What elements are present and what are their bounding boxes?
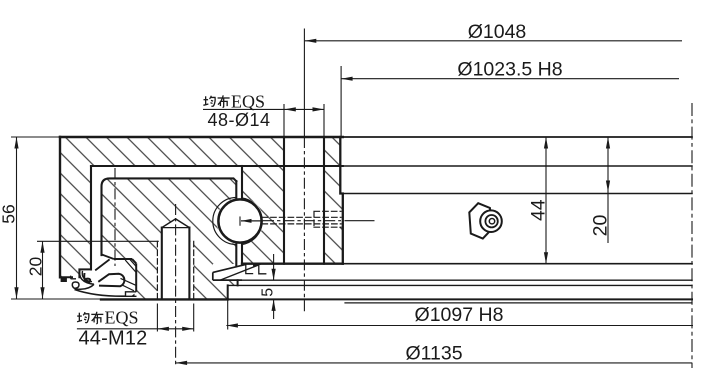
inner ring step edge upper [238,279,692,281]
outer seal: upper-left body edge [95,259,109,270]
M12 thread dashed lines [157,241,193,299]
dim 44-M12 [77,328,194,330]
dim 44 right [545,137,547,264]
svg-text:44-M12: 44-M12 [78,328,147,350]
svg-text:48-Ø14: 48-Ø14 [207,110,270,130]
outer seal: wall contact tick [71,276,76,279]
grease port void [324,211,343,227]
inner ring section (hatched) [101,178,237,299]
tapped hole M12 walls [162,228,190,300]
centerlines [115,29,692,369]
svg-text:Ø1135: Ø1135 [405,343,462,365]
M12 tapped hole void [157,219,193,300]
outer seal: lower lip hook [72,282,94,289]
inner wedge seal: black lip tip [253,263,261,267]
svg-text:Ø1023.5 H8: Ø1023.5 H8 [457,58,562,80]
dim D1097 H8 [226,325,693,327]
ball [218,199,261,242]
outer seal: bottom notch [126,292,137,297]
bottom thin edge right [345,302,692,304]
raceway groove arcs [242,198,262,245]
svg-text:56: 56 [0,204,19,223]
inner ring step edge lower [228,284,692,286]
outer seal: top right corner chamfer [132,259,136,263]
outer ring upper section (hatched) [60,137,343,277]
wall bottom face [60,269,91,277]
ball center tick [239,217,241,225]
dim line D1023.5 H8 [341,78,679,80]
outer seal: piece B chamfer above seal [102,254,114,259]
outer seal: lip fold arcs [80,269,94,284]
dim 56 [16,137,18,299]
wiper strip (black) [61,278,67,282]
svg-text:Ø1097 H8: Ø1097 H8 [415,304,504,326]
svg-text:EQS: EQS [231,91,265,111]
left outer edge [59,137,61,277]
structure outlines [60,137,692,303]
dim 5 [273,254,275,280]
outer seal: slanted lip finger [98,274,124,287]
ball raceway void [217,198,264,245]
svg-text:5: 5 [260,288,277,297]
svg-text:44: 44 [528,199,550,221]
seal groove centerline [114,168,116,266]
top edge [60,136,343,138]
outer seal: top edge [114,258,132,260]
outer seal: rubber hatch lines [121,259,137,291]
bore step edge [343,193,692,195]
dim 48-d14 line [203,108,324,110]
seal cavity void [101,255,137,300]
dim line D1048 [305,40,682,42]
svg-text:Ø1048: Ø1048 [468,21,527,43]
dim 20 left [42,241,44,298]
outer seal: bottom notch wedge [131,294,135,297]
section voids (white) [101,137,343,299]
grease passage arrow to ball [241,220,263,222]
wedge seal void [213,264,237,280]
bolt hole centerline [303,137,305,312]
svg-text:EQS: EQS [105,308,139,328]
svg-text:20: 20 [26,257,46,277]
channel bottom edge (inner ring top face) [102,178,237,255]
grease fitting circles [480,210,502,232]
dim D1135 [176,362,692,364]
bolt hole centerline upper solid (dim extension) [303,29,305,138]
outer seal: right edge [135,263,137,291]
bottom mounting face [101,298,228,300]
outer seal: lip fold curl [84,273,90,282]
outer seal: bottom edge [75,290,126,297]
inner wedge seal: long diagonal [221,265,260,280]
wall inner face [90,166,92,269]
right break centerline [691,103,693,368]
svg-text:20: 20 [590,215,612,237]
bore of outer ring (right edge of section) [340,137,343,264]
M12 hole centerline [175,204,177,365]
dim 20 right [607,137,609,243]
M12 cone bottom [162,227,190,229]
bolt hole 48-d14 edges [284,137,324,264]
inner wedge seal: step under tip [246,264,253,273]
inner wedge seal: left and bottom [213,272,242,280]
inner ring right face [235,181,237,197]
seals [71,254,267,296]
inner wedge seal: top diagonal [213,264,246,272]
inner wedge seal: right step [259,266,267,274]
channel right edge / outer ring inner face [241,166,243,198]
grease fitting hex body [469,203,492,238]
grease passage hidden lines [262,217,341,224]
label: uniform EQS (bottom) [77,312,89,323]
split seam / channel top edge [91,165,343,167]
inner ring bottom step [228,280,238,299]
grease passage centerline [263,220,341,222]
label: uniform EQS (top) [203,96,215,107]
outer ring bottom face [242,263,343,265]
bolt hole void [284,137,324,264]
